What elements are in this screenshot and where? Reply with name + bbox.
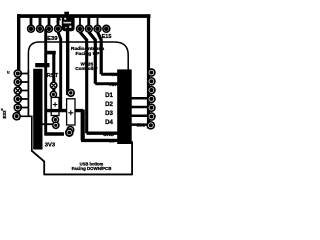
pad above C1 — [50, 91, 58, 99]
wire vertical F — [89, 32, 96, 84]
wire from component down — [66, 28, 69, 42]
capacitor C2 body — [67, 99, 75, 125]
left header pad L4 — [13, 95, 22, 104]
wire stub top pad 4 — [57, 17, 60, 26]
left header pad L1 — [13, 69, 22, 78]
board outline bottom tab right — [131, 142, 133, 175]
svg-text:RST: RST — [47, 73, 59, 79]
component antenna blob — [62, 12, 75, 32]
IC block left — [33, 69, 42, 150]
svg-text:D3: D3 — [105, 110, 113, 117]
header pad E39-4 — [54, 25, 63, 34]
wire elbow A to B — [46, 51, 56, 55]
wire trace left pads vertical — [27, 70, 29, 116]
wire elbow G row1 — [101, 73, 117, 76]
board outline bottom tab left — [43, 161, 45, 174]
svg-text:D4: D4 — [105, 119, 113, 126]
svg-text:D2: D2 — [105, 101, 113, 108]
wire horizontal GND trace — [45, 133, 127, 140]
header pad E39-2 — [36, 25, 45, 34]
right header pad R4 — [147, 95, 156, 104]
right header pad R1 — [147, 68, 156, 77]
wire vertical G — [98, 32, 102, 74]
capacitor C1 plus — [53, 102, 58, 107]
board outline top edge — [17, 14, 151, 18]
svg-text:GND: GND — [103, 132, 114, 138]
wire vertical D from component — [66, 42, 69, 95]
module outline rounded rect — [28, 42, 128, 116]
pad above C2 — [67, 89, 75, 97]
svg-text:u: u — [7, 70, 10, 75]
header pad E39-3 — [45, 25, 54, 34]
svg-text:5V: 5V — [109, 139, 116, 145]
header pad E15-2 — [85, 25, 94, 34]
arrow mark — [57, 18, 62, 22]
wire stub top pad 5 — [79, 17, 81, 26]
pad on 3V3 wire — [65, 128, 74, 137]
wire stubs from IC block to right pads — [131, 98, 148, 124]
left header pad L6 — [12, 112, 21, 121]
left header pad L5 — [13, 103, 22, 112]
svg-text:E39: E39 — [47, 36, 58, 42]
wire stub top pad 6 — [87, 17, 90, 26]
wire elbow F row2 — [95, 82, 117, 85]
wire vertical A — [44, 29, 47, 136]
svg-text:Facing DOWN/PCB: Facing DOWN/PCB — [72, 166, 112, 171]
wire stub top pad 1 — [30, 17, 33, 26]
via pad with cross — [50, 81, 58, 89]
wire elbow A left bar — [35, 63, 49, 67]
right header pad R6 — [147, 112, 156, 121]
board outline left edge behind pads — [18, 66, 20, 120]
wire stub from block to pads — [43, 123, 54, 125]
right header pad R5 — [147, 103, 156, 112]
wire stub top pad 7 — [97, 17, 99, 26]
wire vertical E — [80, 32, 87, 133]
board outline bottom-left chamfer — [31, 150, 44, 162]
pad below C2 — [66, 126, 74, 134]
right header pad R2 — [147, 77, 156, 86]
wire left inner vertical — [31, 116, 33, 151]
right header pad R7 — [146, 121, 155, 130]
board outline left edge — [17, 14, 20, 69]
header pad E39-1 — [27, 25, 36, 34]
svg-text:E15: E15 — [102, 34, 112, 40]
board outline bottom edge — [44, 173, 133, 175]
capacitor C1 body — [51, 97, 59, 115]
wire elbow down to GND trace — [81, 110, 85, 141]
right header pad R3 — [147, 86, 156, 95]
IC block right — [117, 69, 132, 144]
capacitor C2 plus — [68, 110, 73, 115]
stub right of IC block bottom — [126, 141, 133, 144]
header pad E15-3 — [93, 25, 102, 34]
svg-text:3V3: 3V3 — [45, 143, 56, 149]
svg-text:RX: RX — [110, 82, 117, 88]
pad below C1 b — [52, 121, 60, 129]
wire stub L1 — [20, 74, 29, 108]
wire stub top pad 3 — [48, 17, 51, 26]
header pad E15-1 — [76, 25, 85, 34]
wire horizontal main — [45, 109, 83, 112]
svg-text:D1: D1 — [105, 92, 113, 99]
left header pad L3 — [13, 86, 22, 95]
pad below C1 a — [52, 116, 60, 124]
svg-text:TX: TX — [111, 72, 118, 78]
wire vertical B — [52, 53, 55, 93]
left header pad L2 — [13, 78, 22, 87]
wire jog from last left pad — [17, 115, 32, 117]
header pad E15-4 — [102, 25, 111, 34]
wire vertical C — [58, 32, 61, 110]
board outline right edge — [147, 15, 150, 129]
wire stub top pad 2 — [39, 17, 42, 26]
